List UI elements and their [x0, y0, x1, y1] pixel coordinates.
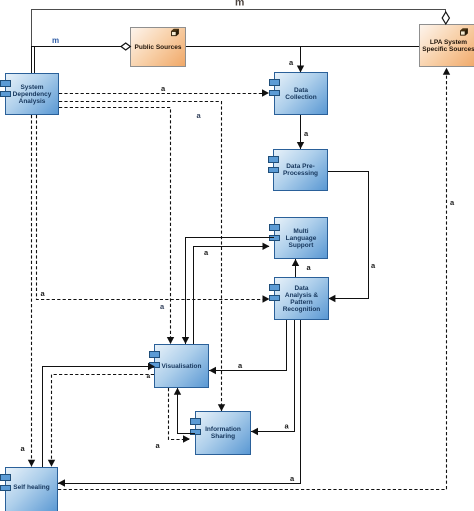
svg-text:a: a [161, 84, 166, 93]
svg-text:a: a [41, 289, 46, 298]
svg-text:a: a [371, 261, 376, 270]
svg-text:a: a [307, 263, 312, 272]
svg-text:m: m [235, 0, 244, 9]
svg-text:a: a [147, 373, 151, 380]
svg-text:a: a [238, 361, 243, 370]
svg-text:a: a [285, 422, 290, 431]
svg-text:a: a [289, 58, 294, 67]
svg-text:a: a [304, 129, 309, 138]
svg-text:a: a [160, 302, 165, 311]
svg-text:a: a [21, 444, 26, 453]
svg-text:a: a [290, 474, 295, 483]
svg-text:a: a [204, 248, 209, 257]
svg-text:a: a [156, 441, 161, 450]
svg-text:a: a [450, 198, 455, 207]
svg-text:m: m [52, 36, 59, 45]
svg-text:a: a [197, 111, 202, 120]
